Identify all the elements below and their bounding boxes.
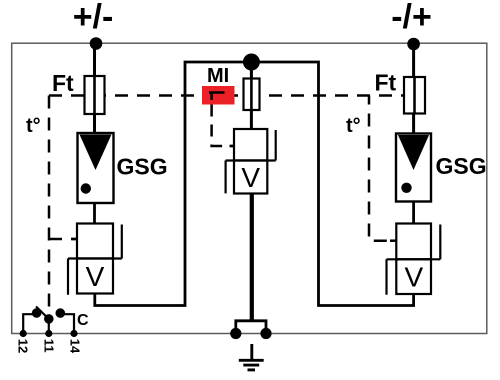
svg-text:11: 11 bbox=[41, 339, 56, 353]
svg-text:t°: t° bbox=[346, 115, 361, 137]
contact terminal 14 stub bbox=[63, 314, 75, 333]
varistor right V box bbox=[396, 259, 431, 294]
thermal monitoring dashed branch to left varistor bbox=[49, 238, 77, 241]
svg-text:Ft: Ft bbox=[52, 70, 74, 96]
inner bus bridge wire bbox=[95, 62, 414, 306]
svg-text:V: V bbox=[404, 262, 423, 293]
varistor middle disconnector box bbox=[234, 129, 267, 161]
thermal monitoring dashed line t-left bbox=[48, 96, 51, 311]
wire middle branch bbox=[250, 62, 253, 130]
contact NO node bbox=[56, 308, 66, 318]
svg-text:V: V bbox=[86, 261, 105, 292]
fuse middle bbox=[244, 79, 260, 111]
svg-text:t°: t° bbox=[26, 115, 41, 137]
varistor left junction bar bbox=[68, 257, 122, 259]
varistor left disconnector box bbox=[77, 224, 113, 259]
contact common node bbox=[44, 314, 54, 324]
contact terminal 12 stub bbox=[23, 314, 34, 333]
varistor middle junction bar bbox=[226, 159, 276, 161]
svg-text:+/-: +/- bbox=[73, 0, 114, 36]
node middle bus bbox=[243, 54, 260, 71]
varistor right right tail bbox=[439, 225, 441, 260]
earth staple wire bbox=[236, 321, 266, 334]
svg-text:GSG: GSG bbox=[436, 153, 487, 179]
fuse Ft left bbox=[85, 76, 105, 114]
wire left input bbox=[93, 42, 96, 134]
varistor middle right tail bbox=[275, 130, 277, 161]
svg-text:MI: MI bbox=[207, 65, 229, 87]
varistor left left tail bbox=[67, 259, 69, 295]
varistor right sense tick bbox=[390, 239, 396, 242]
varistor left V box bbox=[77, 259, 113, 294]
svg-text:V: V bbox=[241, 162, 260, 193]
varistor middle V box bbox=[234, 161, 267, 194]
node right terminal bbox=[407, 38, 420, 51]
MI indicator contact mark bbox=[209, 93, 225, 101]
varistor middle sense tick bbox=[230, 145, 235, 148]
wire right input bbox=[412, 42, 415, 134]
varistor right junction bar bbox=[387, 258, 441, 260]
gas discharge tube GSG right bbox=[396, 134, 431, 202]
node terminal 14 bbox=[70, 330, 77, 337]
wire GSG to varistor left bbox=[93, 203, 96, 224]
MI indicator red box bbox=[202, 86, 235, 105]
ground symbol bbox=[239, 344, 264, 370]
wire GSG to varistor right bbox=[412, 202, 415, 225]
contact lever bbox=[36, 307, 49, 320]
varistor right disconnector box bbox=[396, 224, 431, 260]
svg-text:-/+: -/+ bbox=[391, 0, 432, 36]
node earth right bbox=[260, 328, 271, 339]
thermal monitoring dashed line t-right bbox=[369, 96, 396, 241]
enclosure outline bbox=[12, 43, 487, 333]
varistor left sense tick bbox=[72, 238, 78, 241]
svg-text:GSG: GSG bbox=[117, 154, 168, 180]
contact terminal 11 stub bbox=[48, 320, 50, 334]
svg-text:C: C bbox=[77, 312, 89, 329]
contact NC node bbox=[32, 308, 42, 318]
MI dashed branch to middle varistor bbox=[212, 105, 234, 147]
varistor right left tail bbox=[385, 259, 387, 294]
fuse Ft right bbox=[404, 77, 425, 114]
varistor middle left tail bbox=[225, 161, 227, 194]
varistor left right tail bbox=[121, 225, 123, 259]
node terminal 11 bbox=[45, 330, 52, 337]
node earth left bbox=[230, 328, 241, 339]
svg-text:12: 12 bbox=[15, 339, 30, 353]
node left terminal bbox=[90, 37, 103, 50]
svg-text:Ft: Ft bbox=[375, 70, 397, 96]
monitoring dashed line MI horizontal bbox=[49, 94, 404, 97]
node terminal 12 bbox=[20, 330, 27, 337]
earth conductor wire thick bbox=[250, 194, 254, 322]
gas discharge tube GSG left bbox=[78, 133, 114, 203]
svg-text:14: 14 bbox=[68, 339, 83, 354]
